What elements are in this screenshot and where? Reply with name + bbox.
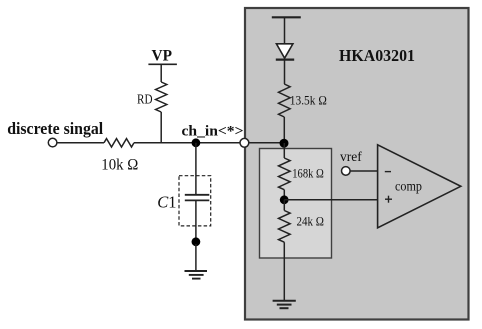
svg-text:VP: VP	[152, 47, 173, 64]
svg-text:10k Ω: 10k Ω	[101, 157, 138, 174]
capacitor C1 plates	[185, 195, 210, 201]
svg-text:discrete singal: discrete singal	[7, 119, 103, 138]
resistor 10k	[104, 139, 134, 147]
inner divider box	[260, 149, 332, 259]
resistor 168k	[279, 158, 291, 190]
svg-text:comp: comp	[395, 179, 422, 194]
label VP	[148, 47, 177, 64]
plus input sign	[385, 196, 392, 203]
IC body HKA03201	[245, 8, 469, 320]
svg-text:24k Ω: 24k Ω	[297, 213, 325, 228]
resistor 24k	[279, 211, 291, 243]
svg-text:ch_in<*>: ch_in<*>	[182, 123, 244, 139]
wire vref to op-amp -	[350, 170, 377, 172]
resistor RD	[156, 82, 167, 112]
svg-text:C1: C1	[157, 193, 176, 212]
svg-text:RD: RD	[137, 92, 153, 107]
minus input sign	[385, 171, 391, 173]
pin terminal circle	[240, 138, 249, 147]
wire resistor to node ch_in	[134, 142, 240, 144]
wire 24k to ground	[283, 242, 285, 300]
divider junction node	[280, 195, 289, 204]
wire pin to internal node	[249, 142, 284, 144]
wire node to ground	[195, 244, 197, 271]
svg-text:168k Ω: 168k Ω	[292, 166, 324, 181]
wire divider node to 24k	[283, 200, 285, 211]
ground left	[185, 271, 208, 279]
resistor 13.5k	[279, 84, 291, 117]
ground right	[273, 301, 296, 309]
diode D1	[276, 44, 294, 60]
wire node down to capacitor	[195, 143, 197, 195]
wire rail to diode	[284, 17, 286, 44]
wire node into divider	[283, 143, 285, 158]
wire terminal to resistor	[57, 142, 104, 144]
wire diode to resistor	[284, 60, 286, 84]
svg-text:HKA03201: HKA03201	[339, 46, 415, 65]
input terminal circle	[48, 138, 57, 147]
power rail bar	[272, 16, 301, 18]
wire capacitor to node	[195, 200, 197, 244]
svg-text:13.5k Ω: 13.5k Ω	[290, 94, 327, 108]
op-amp comp	[378, 145, 461, 228]
vref terminal circle	[342, 167, 351, 176]
wire RD to main line	[160, 112, 162, 143]
capacitor C1 dashed outline	[179, 176, 211, 226]
junction node ch_in	[192, 138, 201, 147]
svg-text:vref: vref	[340, 149, 362, 164]
wire VP to RD	[160, 64, 162, 82]
internal junction node	[280, 139, 289, 148]
wire resistor to node	[283, 117, 285, 143]
wire 168k to divider node	[283, 190, 285, 200]
junction node below C1	[192, 237, 201, 246]
wire divider node to op-amp +	[284, 199, 377, 201]
